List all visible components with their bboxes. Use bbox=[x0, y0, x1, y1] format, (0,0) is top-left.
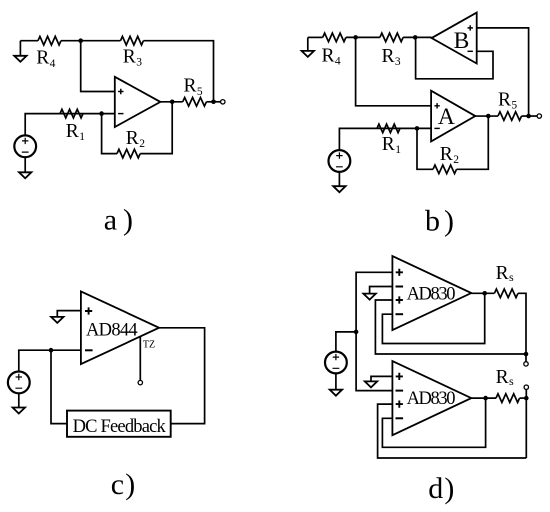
svg-text:): ) bbox=[444, 472, 454, 505]
resistor R3 bbox=[121, 36, 144, 45]
resistor Rs (bottom) bbox=[496, 394, 520, 403]
node: R4/R3 junction bbox=[78, 38, 83, 43]
svg-text:TZ: TZ bbox=[143, 340, 155, 351]
bottom AD830 pin4 - marker bbox=[396, 417, 404, 419]
wire: top AD830 output bbox=[471, 292, 494, 294]
bottom AD830 pin2 - marker bbox=[396, 390, 404, 392]
AD844 + marker bbox=[85, 307, 92, 314]
wire: bottom AD830 pin3 sense loop (outer) bbox=[378, 404, 527, 458]
op-amp B - marker bbox=[468, 50, 473, 52]
wire: node down to sense loop (d bottom) bbox=[525, 398, 527, 458]
ground below source (d) bbox=[330, 390, 342, 396]
wire: bottom AD830 pin1 to ground bbox=[371, 376, 392, 381]
wire: node up to terminal (d bottom) bbox=[525, 389, 527, 398]
svg-text:): ) bbox=[444, 205, 454, 238]
DC Feedback box bbox=[67, 411, 171, 437]
wire: output to box right side bbox=[159, 328, 205, 424]
node: bottom output junction bbox=[483, 396, 488, 401]
resistor R5 (b) bbox=[498, 112, 522, 121]
svg-text:R: R bbox=[496, 263, 509, 284]
svg-text:): ) bbox=[125, 468, 135, 501]
wire: + input to ground bbox=[57, 311, 81, 317]
node: R4/R3 junction (b) bbox=[353, 35, 358, 40]
svg-text:R: R bbox=[66, 121, 79, 142]
top AD830 pin2 - marker bbox=[396, 286, 404, 288]
svg-text:R: R bbox=[496, 367, 509, 388]
wire: R3 to output node (top-right corner) bbox=[143, 41, 213, 102]
wire: tap to source (d) bbox=[336, 332, 356, 352]
wire: source to ground (d) bbox=[335, 373, 337, 389]
resistor R5 bbox=[183, 98, 207, 107]
top AD830 pin1 + marker bbox=[396, 269, 403, 276]
svg-text:DC Feedback: DC Feedback bbox=[73, 417, 167, 437]
wire: op-amp output bbox=[160, 101, 182, 103]
ground below source (a) bbox=[19, 172, 31, 178]
wire: - junction down to DC feedback box bbox=[51, 350, 67, 423]
svg-text:AD844: AD844 bbox=[86, 320, 137, 340]
wire: R2 feedback left/bottom bbox=[102, 114, 117, 154]
svg-text:R: R bbox=[123, 47, 136, 68]
wire: R3 to B output bbox=[403, 36, 432, 38]
node: output junction (b) bbox=[486, 114, 491, 119]
svg-text:R: R bbox=[382, 46, 395, 67]
op-amp B (output on left) bbox=[432, 13, 477, 64]
ground below source (b) bbox=[333, 186, 345, 192]
resistor R2 bbox=[117, 149, 140, 158]
wire: Rs to node (bottom) bbox=[520, 397, 527, 399]
svg-text:s: s bbox=[509, 374, 514, 388]
node: R5 right bbox=[211, 100, 216, 105]
svg-text:B: B bbox=[454, 28, 470, 54]
resistor R4 bbox=[38, 36, 61, 45]
op-amp A bbox=[431, 91, 475, 142]
op-amp - marker bbox=[118, 113, 123, 115]
node: R1/R2 junction (b) bbox=[415, 126, 420, 131]
svg-text:R: R bbox=[126, 128, 139, 149]
wire: R4 to node bbox=[61, 40, 121, 42]
svg-text:c: c bbox=[111, 468, 124, 501]
ground at top AD830 pin2 bbox=[363, 294, 375, 300]
resistor R1 bbox=[60, 109, 83, 118]
wire: - input line to source (c) bbox=[19, 350, 81, 371]
wire: junction down to A + input bbox=[356, 37, 432, 105]
wire: bottom AD830 output bbox=[471, 397, 496, 399]
wire: top AD830 pin2 to ground bbox=[370, 287, 393, 294]
node: source tap (d) bbox=[354, 330, 359, 335]
top AD830 pin3 + marker bbox=[396, 296, 403, 303]
AD844 - marker bbox=[85, 349, 93, 351]
wire: top AD830 pin3 sense loop (outer) bbox=[375, 300, 526, 354]
wire: R5 to node bbox=[206, 101, 220, 103]
voltage source (a) bbox=[14, 135, 36, 157]
svg-text:R: R bbox=[498, 90, 511, 111]
svg-text:R: R bbox=[36, 48, 49, 69]
svg-text:1: 1 bbox=[79, 131, 85, 143]
svg-text:A: A bbox=[438, 104, 455, 130]
op-amp AD830 (top) bbox=[392, 256, 471, 330]
svg-text:a: a bbox=[104, 204, 117, 237]
TZ pin wire bbox=[139, 337, 141, 381]
op-amp AD830 (bottom) bbox=[392, 361, 471, 435]
circuit b: ground top-left bbox=[307, 37, 309, 51]
op-amp (a) bbox=[115, 77, 161, 127]
voltage source (b) bbox=[329, 150, 351, 172]
wire: R2 feedback (b) bbox=[417, 128, 433, 169]
node: - input junction (c) bbox=[49, 348, 54, 353]
resistor R2 (b) bbox=[433, 165, 457, 174]
wire: - input line to source bbox=[25, 114, 115, 136]
ground at bottom AD830 pin1 bbox=[365, 381, 377, 387]
node: R5 right (b) bbox=[526, 114, 531, 119]
wire: bottom AD830 pin4 feedback loop (inner) bbox=[382, 398, 485, 447]
TZ terminal bbox=[138, 380, 142, 384]
wire: top rail left bbox=[308, 36, 323, 38]
output terminal (d top) bbox=[524, 362, 528, 366]
wire: junction to + input bbox=[81, 41, 115, 92]
bottom AD830 pin3 + marker bbox=[396, 401, 403, 408]
wire: source to ground bbox=[24, 157, 26, 172]
wire: source to ground (c) bbox=[18, 393, 20, 407]
resistor Rs (top) bbox=[494, 289, 518, 298]
voltage source (d) bbox=[325, 352, 347, 374]
circuit a: ground top-left bbox=[19, 41, 21, 56]
op-amp A + marker bbox=[434, 103, 439, 108]
node: top sense junction bbox=[524, 352, 529, 357]
svg-text:): ) bbox=[123, 204, 133, 237]
svg-text:3: 3 bbox=[136, 57, 142, 69]
node: R1/R2 junction bbox=[99, 111, 104, 116]
op-amp B + marker bbox=[468, 25, 473, 30]
output terminal (a) bbox=[221, 100, 225, 104]
wire: R5 to node (b) bbox=[522, 115, 538, 117]
op-amp + marker bbox=[118, 89, 123, 94]
svg-text:R: R bbox=[322, 46, 335, 67]
wire: Rs to corner down to terminal bbox=[518, 293, 526, 362]
svg-text:5: 5 bbox=[197, 86, 203, 98]
op-amp A - marker bbox=[434, 127, 439, 129]
svg-text:2: 2 bbox=[139, 138, 145, 150]
svg-text:s: s bbox=[509, 270, 514, 284]
node: top output junction bbox=[482, 291, 487, 296]
resistor R3 (b) bbox=[380, 33, 403, 42]
svg-text:R: R bbox=[382, 134, 395, 155]
ground at AD844 + input bbox=[51, 317, 63, 323]
ground below source (c) bbox=[13, 408, 25, 414]
wire: top AD830 pin4 feedback loop (inner) bbox=[382, 293, 484, 343]
svg-text:3: 3 bbox=[395, 56, 401, 68]
wire: R2 to output junction bbox=[140, 102, 172, 154]
wire: R4 to R3 bbox=[346, 36, 380, 38]
wire: source vertical to AD830 pins (d) bbox=[356, 272, 392, 390]
svg-text:2: 2 bbox=[453, 154, 459, 166]
svg-text:AD830: AD830 bbox=[407, 285, 456, 305]
output terminal (b) bbox=[537, 114, 541, 118]
top AD830 pin4 - marker bbox=[396, 313, 404, 315]
svg-text:4: 4 bbox=[50, 58, 56, 70]
wire: B + input to right rail down to output node bbox=[477, 28, 529, 116]
resistor R1 (b) bbox=[377, 124, 400, 133]
node: R3/B junction bbox=[413, 35, 418, 40]
svg-text:R: R bbox=[184, 75, 197, 96]
bottom AD830 pin1 + marker bbox=[396, 373, 403, 380]
svg-text:R: R bbox=[440, 144, 453, 165]
wire: top rail left bbox=[20, 40, 38, 42]
wire: B - input feedback loop bbox=[416, 37, 493, 78]
svg-text:4: 4 bbox=[335, 56, 341, 68]
node: output junction bbox=[170, 100, 175, 105]
resistor R4 (b) bbox=[323, 33, 346, 42]
node: bottom sense junction bbox=[524, 396, 529, 401]
svg-text:AD830: AD830 bbox=[407, 389, 456, 409]
wire: source to ground (b) bbox=[338, 172, 340, 186]
wire: A output bbox=[475, 115, 498, 117]
svg-text:d: d bbox=[428, 472, 443, 505]
svg-text:5: 5 bbox=[511, 100, 517, 112]
svg-text:1: 1 bbox=[395, 144, 401, 156]
output terminal (d bottom) bbox=[524, 385, 528, 389]
op-amp AD844 bbox=[81, 291, 159, 364]
voltage source (c) bbox=[8, 372, 30, 394]
wire: R2 to output junction (b) bbox=[457, 116, 489, 169]
svg-text:b: b bbox=[425, 205, 440, 238]
wire: - input line to source (b) bbox=[339, 128, 431, 150]
